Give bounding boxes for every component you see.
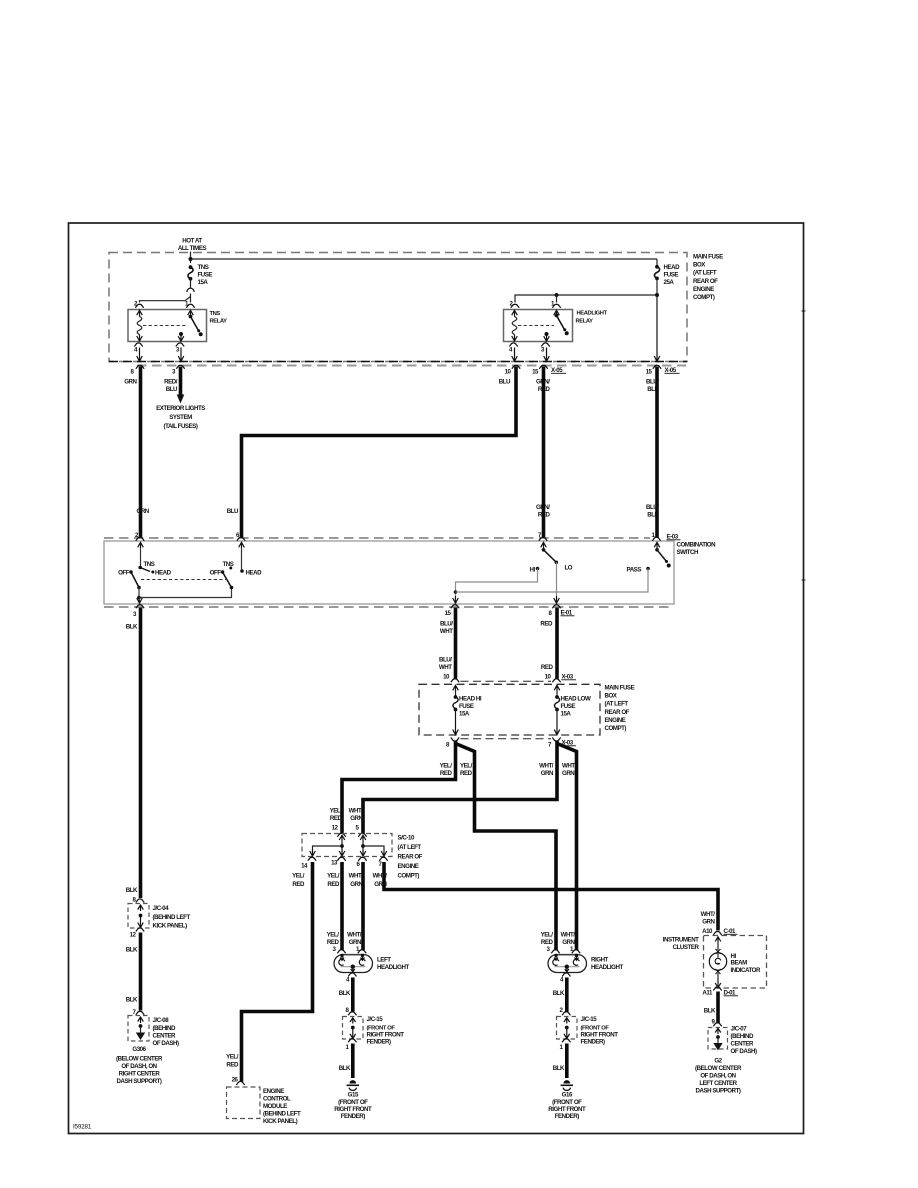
head switch HEAD contact bbox=[240, 569, 262, 576]
S/C-10 label bbox=[398, 835, 423, 880]
svg-text:RED: RED bbox=[330, 815, 343, 822]
splice S/C-10 box bbox=[302, 834, 392, 857]
svg-text:CONTROL: CONTROL bbox=[263, 1096, 291, 1103]
dimmer LO output wire bbox=[556, 562, 558, 597]
connector cup left headlight pin 3 bbox=[337, 950, 345, 954]
svg-text:(AT LEFT: (AT LEFT bbox=[693, 270, 717, 277]
svg-text:15A: 15A bbox=[561, 711, 572, 718]
svg-text:ENGINE: ENGINE bbox=[693, 286, 714, 293]
headlight relay coil bbox=[512, 310, 518, 341]
svg-text:OFF: OFF bbox=[210, 570, 222, 577]
svg-text:15: 15 bbox=[532, 369, 539, 376]
svg-text:15: 15 bbox=[646, 369, 653, 376]
dimmer PASS contact bbox=[627, 567, 650, 574]
wire bus to head fuse bbox=[191, 259, 658, 267]
svg-text:KICK PANEL): KICK PANEL) bbox=[153, 923, 188, 930]
svg-text:BLU/: BLU/ bbox=[439, 657, 452, 664]
dimmer feed node from pin 7 bbox=[542, 548, 546, 552]
svg-text:REAR OF: REAR OF bbox=[398, 854, 423, 861]
connector cup left headlight pin 1 bbox=[358, 950, 366, 954]
wire WHT/GRN trunk from head low fuse bbox=[363, 741, 557, 834]
svg-text:I59281: I59281 bbox=[73, 1124, 92, 1131]
wire below TNS fuse bbox=[190, 279, 192, 289]
svg-text:WHT: WHT bbox=[439, 664, 452, 671]
connector cup left J/C-15 top bbox=[348, 1012, 356, 1016]
HI BEAM INDICATOR label bbox=[731, 953, 762, 974]
svg-text:GRN/: GRN/ bbox=[536, 504, 550, 511]
right J/C-15 internals bbox=[564, 1018, 570, 1039]
svg-text:BLK: BLK bbox=[339, 1065, 351, 1072]
main fuse box 2 label bbox=[605, 685, 635, 733]
page border frame bbox=[69, 223, 806, 1134]
wire RED/BLU labels bbox=[164, 379, 178, 394]
svg-text:COMPT): COMPT) bbox=[398, 873, 420, 880]
fuse TNS FUSE 15A bbox=[188, 264, 212, 286]
HEADLIGHT RELAY label bbox=[576, 311, 608, 325]
stub headlight relay pin 1 bbox=[556, 295, 558, 303]
connector cup J/C-04 bottom bbox=[136, 928, 144, 932]
svg-text:(BELOW CENTER: (BELOW CENTER bbox=[116, 1056, 163, 1063]
svg-text:RED: RED bbox=[226, 1062, 239, 1069]
head hi fuse output wire bbox=[453, 710, 459, 735]
svg-text:(FRONT OF: (FRONT OF bbox=[552, 1099, 582, 1106]
connector cup pin 2 headlight relay bbox=[511, 304, 519, 308]
svg-text:BLK: BLK bbox=[553, 1065, 565, 1072]
connector cup TNS relay pin 4 bbox=[134, 343, 142, 347]
connector cup left headlight pin 4 bbox=[348, 973, 356, 977]
svg-text:GRN: GRN bbox=[349, 939, 362, 946]
svg-text:OF DASH): OF DASH) bbox=[153, 1040, 179, 1047]
comb switch output arrow pin 3 bbox=[137, 598, 143, 604]
connector X-05 label right bbox=[665, 367, 680, 374]
svg-text:REAR OF: REAR OF bbox=[605, 709, 630, 716]
dimmer HI output wire bbox=[456, 569, 538, 597]
svg-text:(BEHIND LEFT: (BEHIND LEFT bbox=[153, 914, 191, 921]
wire YEL/RED pin13 labels bbox=[327, 873, 340, 889]
connector cup wire GRN pin 8 bbox=[136, 365, 144, 369]
svg-text:WHT/: WHT/ bbox=[349, 808, 364, 815]
svg-text:RED: RED bbox=[440, 770, 453, 777]
svg-text:HEADLIGHT: HEADLIGHT bbox=[377, 964, 409, 971]
svg-text:GRN: GRN bbox=[124, 379, 137, 386]
ground G16 symbol bbox=[561, 1080, 573, 1090]
svg-text:EXTERIOR LIGHTS: EXTERIOR LIGHTS bbox=[156, 405, 205, 412]
svg-text:YEL/: YEL/ bbox=[327, 873, 340, 880]
svg-text:G2: G2 bbox=[714, 1058, 722, 1065]
svg-text:DASH SUPPORT): DASH SUPPORT) bbox=[117, 1078, 162, 1085]
wire RED/BLU arrow to exterior lights system bbox=[177, 367, 185, 404]
svg-text:OF DASH): OF DASH) bbox=[731, 1048, 757, 1055]
svg-text:BEAM: BEAM bbox=[731, 960, 748, 967]
ground G15 symbol bbox=[347, 1080, 359, 1090]
TNS switch OFF contact bbox=[118, 570, 133, 577]
svg-text:BLU/: BLU/ bbox=[646, 504, 659, 511]
wire BLU/WHT comb switch to fuse box 2 bbox=[454, 608, 458, 679]
svg-text:RED: RED bbox=[541, 664, 554, 671]
svg-text:MODULE: MODULE bbox=[263, 1103, 287, 1110]
TNS switch feed wire from pin 2 bbox=[140, 548, 142, 567]
connector cup J/C-07 top bbox=[713, 1023, 721, 1027]
svg-text:OF DASH, ON: OF DASH, ON bbox=[700, 1073, 736, 1080]
dimmer HI contact bbox=[530, 567, 540, 574]
link wire to head switch pivot bbox=[139, 588, 232, 598]
wire YEL/RED pin13 to left headlight bbox=[340, 862, 344, 950]
svg-text:RIGHT FRONT: RIGHT FRONT bbox=[334, 1106, 372, 1113]
right headlight housing bbox=[548, 955, 587, 973]
head low fuse entry arrow bbox=[554, 685, 560, 691]
svg-text:YEL/: YEL/ bbox=[460, 763, 473, 770]
svg-text:HEAD HI: HEAD HI bbox=[459, 696, 482, 703]
svg-text:BLK: BLK bbox=[553, 990, 565, 997]
TNS RELAY label bbox=[210, 311, 228, 325]
connector cup wire BLU/BLK pin 15 bbox=[653, 365, 661, 369]
wire BLU/BLK labels top bbox=[646, 379, 660, 394]
svg-text:HEADLIGHT: HEADLIGHT bbox=[591, 964, 623, 971]
svg-text:RIGHT FRONT: RIGHT FRONT bbox=[548, 1106, 586, 1113]
svg-text:ALL TIMES: ALL TIMES bbox=[178, 245, 207, 252]
right headlight internals bbox=[553, 954, 580, 972]
wire YEL/RED trunk from head hi fuse bbox=[342, 741, 456, 834]
LEFT HEADLIGHT label bbox=[377, 957, 409, 972]
connector cup right headlight pin 1 bbox=[572, 950, 580, 954]
wire BLK cluster to J/C-07 bbox=[716, 992, 720, 1024]
connector cup TNS relay pin 3 bbox=[176, 343, 184, 347]
connector cup head hi fuse output bbox=[451, 738, 459, 742]
connector cup comb switch pin 1 E-03 bbox=[652, 537, 660, 541]
svg-text:RED/: RED/ bbox=[164, 379, 178, 386]
connector cup ECM pin 26 bbox=[236, 1081, 244, 1085]
wire BLU/BLK labels bottom bbox=[646, 504, 660, 519]
connector cup cluster A11 bbox=[713, 987, 721, 991]
svg-text:HEAD: HEAD bbox=[664, 264, 681, 271]
svg-text:WHT/: WHT/ bbox=[347, 932, 362, 939]
head low fuse output wire bbox=[554, 710, 560, 735]
connector plane X-05 below fuse box 1 bbox=[137, 365, 686, 367]
svg-text:(BEHIND: (BEHIND bbox=[153, 1025, 176, 1032]
wire BLU/BLK (comb switch pin 1) bbox=[655, 367, 659, 538]
cluster entry arrow bbox=[715, 937, 721, 943]
head switch pivot node bbox=[230, 586, 234, 590]
junction headlight relay pin1 bbox=[555, 293, 559, 297]
connector cup pin 1 headlight relay bbox=[552, 304, 560, 308]
S/C-10 pin 5 entry arrow bbox=[360, 835, 366, 841]
wire WHT/GRN branch to right headlight pin 1 bbox=[557, 744, 577, 951]
connector cup wire GRN/RED pin 15 bbox=[539, 365, 547, 369]
svg-text:OFF: OFF bbox=[118, 570, 130, 577]
comb switch pin 6 entry arrow bbox=[239, 542, 245, 548]
junction connector left J/C-15 box bbox=[343, 1017, 364, 1040]
head switch TNS contact bbox=[223, 561, 234, 570]
connector cup S/C-10 pin 12 bbox=[337, 833, 345, 837]
node HOT AT ALL TIMES bbox=[178, 238, 207, 253]
wire WHT/GRN labels above S/C-10 bbox=[349, 808, 364, 823]
left headlight housing bbox=[334, 955, 373, 973]
svg-text:HOT AT: HOT AT bbox=[182, 238, 202, 245]
junction connector J/C-07 box bbox=[708, 1028, 728, 1050]
svg-text:G16: G16 bbox=[562, 1092, 573, 1099]
svg-text:BLK: BLK bbox=[647, 512, 659, 519]
connector E-01 label bbox=[561, 610, 575, 617]
wire headlight relay pin 3 to X-05 bbox=[544, 348, 550, 362]
dimmer wiper arm pin7 to LO bbox=[544, 550, 557, 562]
J/C-04 label bbox=[153, 905, 191, 930]
svg-text:(BEHIND LEFT: (BEHIND LEFT bbox=[263, 1111, 301, 1118]
svg-text:(BEHIND: (BEHIND bbox=[731, 1033, 754, 1040]
connector cup S/C-10 pin 14 bbox=[308, 857, 316, 861]
wire BLK to ground G16 bbox=[565, 1044, 569, 1079]
svg-text:G15: G15 bbox=[348, 1092, 359, 1099]
svg-text:S/C-10: S/C-10 bbox=[398, 835, 415, 842]
svg-text:TNS: TNS bbox=[223, 561, 234, 568]
svg-text:25A: 25A bbox=[664, 279, 675, 286]
svg-text:RELAY: RELAY bbox=[576, 319, 594, 325]
connector cup pin 1 TNS relay bbox=[186, 304, 194, 308]
svg-text:ENGINE: ENGINE bbox=[605, 717, 626, 724]
wire headlight relay pin 4 to X-05 bbox=[512, 348, 518, 362]
svg-text:BOX: BOX bbox=[605, 693, 618, 700]
RIGHT HEADLIGHT label bbox=[591, 957, 623, 972]
svg-text:RED: RED bbox=[292, 881, 305, 888]
J/C-07 internals with ground bbox=[713, 1028, 722, 1050]
svg-text:YEL/: YEL/ bbox=[541, 932, 554, 939]
svg-text:BLU: BLU bbox=[499, 379, 511, 386]
dimmer PASS wire bbox=[456, 569, 649, 593]
svg-text:WHT: WHT bbox=[440, 628, 453, 635]
TNS switch common node bbox=[138, 566, 142, 570]
TNS switch pivot to output junction bbox=[138, 588, 140, 598]
svg-text:SWITCH: SWITCH bbox=[677, 549, 700, 556]
relay HEADLIGHT RELAY box bbox=[504, 310, 573, 342]
connector cup right J/C-15 top bbox=[562, 1012, 570, 1016]
connector X-05 label left bbox=[551, 367, 566, 374]
head switch OFF contact bbox=[210, 570, 225, 577]
svg-text:BLK: BLK bbox=[126, 624, 138, 631]
svg-text:13: 13 bbox=[331, 860, 338, 867]
svg-text:WHT/: WHT/ bbox=[701, 911, 716, 918]
head switch feed from pin 6 bbox=[241, 548, 243, 570]
TNS relay coil bbox=[137, 310, 143, 341]
svg-text:MAIN FUSE: MAIN FUSE bbox=[605, 685, 635, 692]
connector cup pin 2 TNS relay bbox=[135, 304, 143, 308]
connector E-03 label bbox=[667, 534, 681, 541]
INSTRUMENT CLUSTER label bbox=[663, 937, 700, 952]
svg-text:10: 10 bbox=[443, 674, 450, 681]
svg-text:ENGINE: ENGINE bbox=[263, 1088, 284, 1095]
relay TNS RELAY box bbox=[128, 310, 207, 342]
svg-text:KICK PANEL): KICK PANEL) bbox=[263, 1118, 298, 1125]
right J/C-15 label bbox=[581, 1016, 619, 1046]
svg-text:YEL/: YEL/ bbox=[327, 932, 340, 939]
svg-text:RELAY: RELAY bbox=[210, 319, 228, 325]
comb switch pin 7 entry arrow bbox=[541, 542, 547, 548]
svg-text:WHT/: WHT/ bbox=[349, 873, 364, 880]
svg-text:12: 12 bbox=[130, 932, 137, 939]
svg-text:GRN: GRN bbox=[562, 939, 575, 946]
connector cup head low fuse input bbox=[552, 679, 560, 683]
left J/C-15 internals bbox=[350, 1018, 356, 1039]
main fuse box 1 label bbox=[693, 254, 723, 302]
wire YEL/RED labels at ECM bbox=[226, 1054, 239, 1069]
connector cup comb switch output pin 8 E-01 bbox=[552, 605, 560, 609]
head switch arm bbox=[223, 572, 232, 588]
svg-text:15A: 15A bbox=[198, 279, 209, 286]
svg-text:DASH SUPPORT): DASH SUPPORT) bbox=[696, 1088, 741, 1095]
mechanical dashed link TNS-HEAD switches bbox=[141, 579, 227, 581]
connector cup right headlight pin 3 bbox=[551, 950, 559, 954]
COMBINATION SWITCH label bbox=[677, 542, 717, 557]
wire below head fuse down to headlight relay feed bbox=[656, 278, 658, 295]
TNS switch pivot node bbox=[137, 586, 141, 590]
svg-text:RED: RED bbox=[540, 621, 553, 628]
svg-text:BLU: BLU bbox=[166, 386, 178, 393]
svg-text:J/C-07: J/C-07 bbox=[731, 1026, 748, 1033]
svg-text:BLU/: BLU/ bbox=[440, 621, 453, 628]
svg-text:GRN: GRN bbox=[541, 770, 554, 777]
svg-text:RED: RED bbox=[327, 881, 340, 888]
connector plane bottom of comb switch bbox=[104, 606, 674, 608]
svg-text:RED: RED bbox=[541, 939, 554, 946]
wire YEL/RED labels right headlight bbox=[541, 932, 554, 947]
S/C-10 internal splice 12 bbox=[310, 841, 345, 856]
connector cup S/C-10 pin 5 bbox=[358, 833, 366, 837]
svg-text:MAIN FUSE: MAIN FUSE bbox=[693, 254, 723, 261]
wire TNS relay pin 3 to X-05 bbox=[178, 348, 184, 362]
svg-text:14: 14 bbox=[301, 863, 308, 870]
svg-text:BLK: BLK bbox=[339, 990, 351, 997]
cluster exit arrow bbox=[715, 982, 721, 988]
svg-text:WHT/: WHT/ bbox=[561, 932, 576, 939]
svg-text:CENTER: CENTER bbox=[153, 1033, 177, 1040]
svg-text:RED: RED bbox=[538, 512, 551, 519]
wire BLK comb switch pin 3 down bbox=[139, 608, 143, 899]
connector plane X-03 dashes top bbox=[461, 680, 552, 682]
svg-text:GRN: GRN bbox=[702, 919, 715, 926]
connector cup headlight relay pin 3 bbox=[541, 343, 549, 347]
wire WHT/GRN pin6 labels bbox=[349, 873, 364, 889]
connector cup head hi fuse input bbox=[451, 679, 459, 683]
connector cup wire RED/BLU pin 3 bbox=[176, 365, 184, 369]
svg-text:(FRONT OF: (FRONT OF bbox=[338, 1099, 368, 1106]
connector cup cluster A10 bbox=[713, 931, 721, 935]
ground G306 label bbox=[116, 1046, 163, 1085]
wire feed from HOT AT ALL TIMES bbox=[190, 252, 192, 264]
svg-text:HEAD: HEAD bbox=[246, 570, 263, 577]
svg-text:PASS: PASS bbox=[627, 567, 642, 574]
wire YEL/RED labels above S/C-10 bbox=[330, 808, 343, 823]
J/C-08 internals with ground bbox=[136, 1017, 145, 1040]
svg-text:10: 10 bbox=[505, 369, 512, 376]
J/C-07 label bbox=[731, 1026, 757, 1056]
connector cup wire BLU pin 10 bbox=[512, 365, 520, 369]
svg-text:INSTRUMENT: INSTRUMENT bbox=[663, 937, 699, 944]
dimmer HI output arrow bbox=[453, 596, 459, 603]
svg-text:BLK: BLK bbox=[704, 1008, 716, 1015]
wire WHT/GRN labels at cluster bbox=[701, 911, 716, 926]
svg-text:GRN: GRN bbox=[562, 770, 575, 777]
headlight relay coil-switch dashed link bbox=[518, 325, 554, 327]
svg-text:SYSTEM: SYSTEM bbox=[169, 414, 192, 421]
svg-text:RED: RED bbox=[460, 770, 473, 777]
junction connector right J/C-15 box bbox=[557, 1017, 578, 1040]
svg-text:FENDER): FENDER) bbox=[555, 1113, 580, 1120]
J/C-04 internals bbox=[138, 905, 144, 928]
wire GRN/RED labels top bbox=[536, 379, 551, 394]
head hi fuse entry arrow bbox=[453, 685, 459, 691]
junction HI/PASS output bbox=[454, 590, 458, 594]
svg-text:COMPT): COMPT) bbox=[693, 294, 715, 301]
wire BLK right headlight down bbox=[565, 978, 569, 1012]
wire YEL/RED pin14 to ECM bbox=[242, 862, 313, 1082]
wire BLU elbow (headlight relay pin4 to comb switch pin 6) bbox=[242, 367, 517, 538]
engine control module label bbox=[263, 1088, 301, 1125]
wire split to relay pins 1 and 2 bbox=[140, 294, 191, 303]
connector cup J/C-08 top bbox=[136, 1011, 144, 1015]
svg-text:BLK: BLK bbox=[126, 947, 138, 954]
svg-text:LEFT: LEFT bbox=[377, 957, 391, 964]
combination switch box bbox=[104, 541, 674, 604]
connector cup J/C-04 top bbox=[136, 899, 144, 903]
svg-text:RED: RED bbox=[327, 939, 340, 946]
svg-text:YEL/: YEL/ bbox=[226, 1054, 239, 1061]
fuse HEAD LOW FUSE 15A bbox=[554, 691, 591, 718]
svg-text:RIGHT FRONT: RIGHT FRONT bbox=[581, 1032, 619, 1039]
svg-text:BLK: BLK bbox=[126, 997, 138, 1004]
svg-text:CLUSTER: CLUSTER bbox=[673, 944, 700, 951]
svg-text:CENTER: CENTER bbox=[731, 1041, 755, 1048]
svg-text:A10: A10 bbox=[702, 928, 713, 935]
wire GRN/RED (comb switch pin 7) bbox=[542, 367, 546, 538]
connector cup right headlight pin 4 bbox=[562, 973, 570, 977]
connector cup comb switch pin 6 bbox=[237, 537, 245, 541]
svg-text:(BELOW CENTER: (BELOW CENTER bbox=[695, 1065, 742, 1072]
wire GRN/RED labels bottom bbox=[536, 504, 551, 519]
svg-text:YEL/: YEL/ bbox=[330, 808, 343, 815]
wire WHT/GRN pin7 to instrument cluster bbox=[384, 862, 718, 931]
connector inline below TNS fuse bbox=[187, 288, 194, 292]
svg-text:ENGINE: ENGINE bbox=[398, 863, 419, 870]
wire YEL/RED pin14 labels bbox=[292, 873, 305, 889]
connector plane X-03 dashes bottom bbox=[461, 738, 552, 740]
svg-text:FENDER): FENDER) bbox=[367, 1039, 392, 1046]
svg-text:(AT LEFT: (AT LEFT bbox=[398, 844, 422, 851]
junction connector J/C-08 box bbox=[128, 1016, 149, 1042]
wire WHT/GRN pin7 labels bbox=[373, 873, 388, 889]
comb switch pin 1 entry arrow bbox=[654, 542, 660, 548]
svg-text:RIGHT CENTER: RIGHT CENTER bbox=[119, 1071, 161, 1078]
connector D-01 label bbox=[724, 990, 739, 997]
svg-text:J/C-15: J/C-15 bbox=[581, 1016, 598, 1023]
wire BLK J/C-04 to J/C-08 bbox=[139, 933, 143, 1011]
svg-text:G306: G306 bbox=[132, 1046, 146, 1053]
dimmer LO output arrow bbox=[554, 596, 560, 603]
ground G15 label bbox=[334, 1092, 372, 1121]
svg-text:COMPT): COMPT) bbox=[605, 725, 627, 732]
left headlight internals bbox=[339, 954, 366, 972]
svg-text:10: 10 bbox=[545, 674, 552, 681]
junction at TNS fuse top bbox=[189, 257, 193, 261]
svg-text:HEADLIGHT: HEADLIGHT bbox=[577, 311, 608, 317]
svg-text:YEL/: YEL/ bbox=[440, 763, 453, 770]
svg-text:TNS: TNS bbox=[198, 264, 209, 271]
J/C-08 label bbox=[153, 1017, 179, 1047]
connector cup comb switch output pin 15 bbox=[451, 605, 459, 609]
wire BLK left headlight down bbox=[351, 978, 355, 1012]
junction at head fuse bottom bbox=[655, 293, 659, 297]
wire WHT/GRN labels right headlight bbox=[561, 932, 576, 947]
S/C-10 pin 12 entry arrow bbox=[339, 835, 345, 841]
dimmer LO contact node bbox=[555, 561, 559, 565]
svg-text:A11: A11 bbox=[702, 990, 713, 997]
